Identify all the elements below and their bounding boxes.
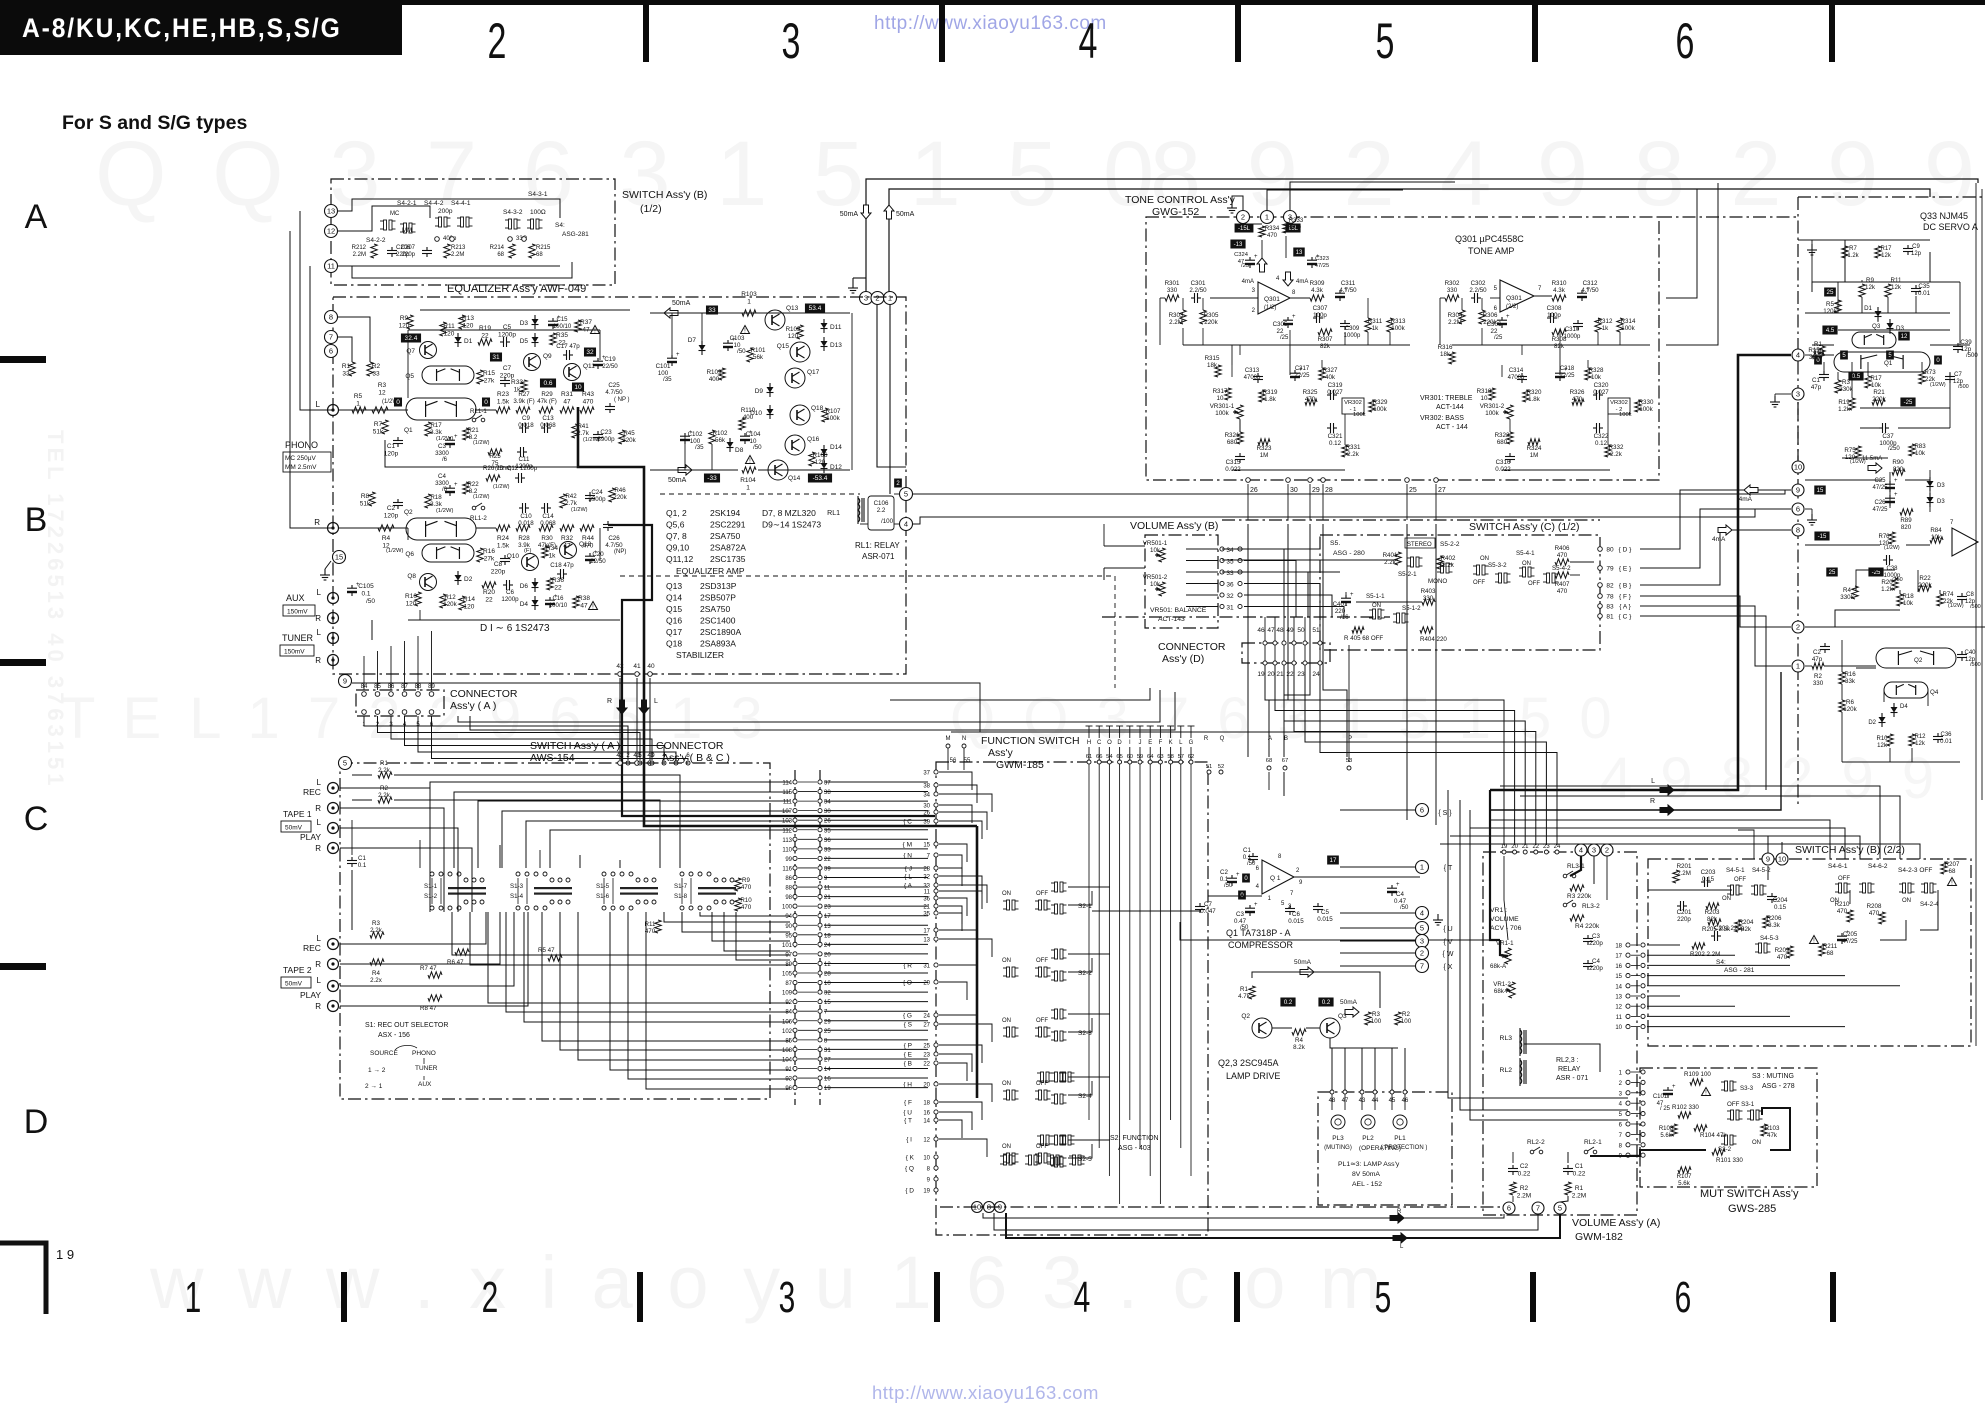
svg-text:S2-2: S2-2 <box>1078 970 1092 977</box>
svg-text:6: 6 <box>329 347 333 356</box>
svg-text:2.2M: 2.2M <box>1448 319 1462 326</box>
svg-text:C9: C9 <box>522 415 530 422</box>
svg-text:39: 39 <box>824 866 831 872</box>
svg-text:VR301-2: VR301-2 <box>1480 403 1505 410</box>
svg-text:0.15: 0.15 <box>1702 876 1715 883</box>
svg-text:VR301-1: VR301-1 <box>1210 403 1235 410</box>
svg-text:{ F }: { F } <box>1619 594 1632 601</box>
svg-text:MUT SWITCH Ass'y: MUT SWITCH Ass'y <box>1700 1188 1799 1200</box>
svg-text:{ U: { U <box>903 1110 912 1117</box>
terminal 15 <box>333 551 346 564</box>
terminal 4 volume A <box>1575 844 1587 856</box>
svg-text:33k: 33k <box>1845 678 1856 685</box>
svg-text:ASG - 278: ASG - 278 <box>1762 1083 1795 1090</box>
capacitor C36 0.01 pa <box>1937 733 1939 737</box>
svg-text:R7 47: R7 47 <box>420 965 437 972</box>
svg-text:3900p: 3900p <box>597 436 615 443</box>
svg-text:4.5: 4.5 <box>1826 328 1835 334</box>
svg-text:2: 2 <box>1420 949 1424 958</box>
resistor R24 1.5k <box>496 525 510 531</box>
svg-text:D: D <box>1117 740 1122 746</box>
svg-text:470: 470 <box>1557 552 1568 559</box>
svg-text:Q13: Q13 <box>666 581 682 591</box>
svg-text:R210: R210 <box>1835 901 1850 908</box>
svg-text:R14: R14 <box>463 596 475 603</box>
svg-text:470: 470 <box>1869 910 1880 917</box>
capacitor C20 22/50 <box>589 553 591 557</box>
svg-text:Q33 NJM45: Q33 NJM45 <box>1920 211 1968 221</box>
svg-text:1: 1 <box>185 1272 202 1321</box>
svg-text:R301: R301 <box>1165 280 1180 287</box>
svg-text:R15: R15 <box>483 370 495 377</box>
svg-text:32: 32 <box>1226 593 1234 600</box>
svg-text:{ E }: { E } <box>1619 566 1632 573</box>
svg-text:12: 12 <box>327 227 335 236</box>
svg-text:4: 4 <box>904 520 908 529</box>
wire function ladder rows to S2 columns <box>939 772 972 790</box>
svg-text:Q8: Q8 <box>407 573 416 580</box>
svg-text:R90: R90 <box>1892 459 1904 466</box>
wire switch A upper rails to connector <box>430 782 790 868</box>
capacitor C314 4700p <box>1521 373 1523 377</box>
svg-text:15: 15 <box>923 843 930 849</box>
svg-text:VR501: BALANCE: VR501: BALANCE <box>1150 607 1207 614</box>
svg-text:D1: D1 <box>464 338 473 345</box>
svg-text:(1/2W): (1/2W) <box>1884 545 1900 551</box>
svg-text:67: 67 <box>1282 758 1288 764</box>
wire right edge verticals <box>1975 183 1977 1046</box>
svg-text:1: 1 <box>356 401 360 408</box>
svg-text:{ E: { E <box>904 1052 913 1059</box>
svg-text:D6: D6 <box>520 583 529 590</box>
svg-text:{ J: { J <box>905 866 912 873</box>
svg-text:S4-4-1: S4-4-1 <box>451 200 471 207</box>
svg-text:RL2,3 :: RL2,3 : <box>1556 1057 1579 1064</box>
svg-text:3.9k (F): 3.9k (F) <box>513 398 534 405</box>
terminal 4 relay <box>900 518 913 531</box>
svg-text:R: R <box>315 804 321 813</box>
svg-text:Q1: Q1 <box>1884 360 1893 367</box>
terminal 7 <box>325 331 338 344</box>
svg-text:59: 59 <box>1137 754 1143 760</box>
capacitor C103 10/50 <box>727 340 729 344</box>
svg-text:120k: 120k <box>1843 706 1857 713</box>
svg-text:RL2: RL2 <box>1500 1067 1513 1074</box>
capacitor C9 0.018 <box>519 427 523 429</box>
svg-text:98: 98 <box>785 895 792 901</box>
pot VR302-2 100k <box>1608 398 1630 414</box>
svg-text:18: 18 <box>923 1101 930 1107</box>
capacitor C35 0.01 pa <box>1915 285 1917 289</box>
svg-text:R: R <box>314 518 320 527</box>
svg-text:/500: /500 <box>1958 384 1969 390</box>
resistor R5 47 <box>548 955 562 961</box>
svg-text:C311: C311 <box>1341 280 1356 287</box>
svg-text:47k: 47k <box>1767 1132 1778 1139</box>
svg-text:Q5,6: Q5,6 <box>666 520 685 530</box>
thick signal path R channel <box>608 525 935 816</box>
svg-text:0.6: 0.6 <box>543 380 552 387</box>
svg-text:R9: R9 <box>400 315 409 322</box>
top grid number 2 <box>488 14 507 70</box>
svg-text:19: 19 <box>923 1189 930 1195</box>
svg-text:15: 15 <box>335 553 343 562</box>
wire tone top cluster <box>1261 240 1263 258</box>
svg-text:R9: R9 <box>1866 277 1874 284</box>
svg-text:/500: /500 <box>1970 662 1981 668</box>
resistor R44 470 <box>580 525 594 531</box>
svg-text:R3: R3 <box>378 382 387 389</box>
svg-text:17: 17 <box>1615 954 1622 960</box>
svg-text:100k: 100k <box>1353 412 1366 418</box>
svg-text:C312: C312 <box>1583 280 1598 287</box>
svg-text:R12: R12 <box>444 594 456 601</box>
svg-text:B: B <box>1284 736 1288 742</box>
svg-text:VOLUME Ass'y (A): VOLUME Ass'y (A) <box>1572 1217 1660 1229</box>
svg-text:66: 66 <box>1096 754 1102 760</box>
svg-text:1200p: 1200p <box>498 332 516 339</box>
svg-text:47p: 47p <box>1812 656 1823 663</box>
resistor R16 33k pa <box>1839 672 1845 684</box>
top border strip <box>402 0 1985 5</box>
bottom grid number 1 <box>185 1272 202 1321</box>
terminal 2 func right <box>1416 947 1429 960</box>
svg-text:12k: 12k <box>1877 743 1888 749</box>
capacitor C7 12p/500 pa <box>1949 373 1951 377</box>
capacitor C315 0.022 <box>1239 453 1241 457</box>
capacitor C324 47/25 <box>1249 257 1251 261</box>
svg-text:14: 14 <box>1615 984 1622 990</box>
thick signal path L channel <box>578 407 977 826</box>
svg-text:C323: C323 <box>1315 256 1329 262</box>
svg-text:53.4: 53.4 <box>809 305 822 312</box>
capacitor C8 12p/500 pa <box>1961 593 1963 597</box>
wire tone terminals up <box>1267 190 1403 210</box>
terminal 7 volume A <box>1532 1202 1544 1214</box>
svg-text:4: 4 <box>1079 14 1098 70</box>
11.5mA arrow pa <box>1868 463 1882 473</box>
svg-text:/6: /6 <box>442 487 448 493</box>
svg-text:120: 120 <box>406 601 417 608</box>
svg-text:S4-2-4: S4-2-4 <box>1920 901 1939 908</box>
wire terminal 9 bus right <box>352 683 980 732</box>
svg-text:5: 5 <box>1420 924 1424 933</box>
capacitor C3 0.47/50 <box>1249 905 1251 909</box>
svg-text:C17 47p: C17 47p <box>556 343 580 350</box>
svg-text:34: 34 <box>1226 547 1234 554</box>
svg-text:ON: ON <box>1372 603 1381 609</box>
svg-text:SWITCH Ass'y (C) (1/2): SWITCH Ass'y (C) (1/2) <box>1469 521 1580 533</box>
svg-text:C25: C25 <box>1874 478 1886 484</box>
block FUNCTION SWITCH outline <box>936 762 1208 1235</box>
terminal 3 equalizer out <box>860 292 873 305</box>
svg-text:R27: R27 <box>518 391 530 398</box>
svg-text:R107: R107 <box>1677 1173 1692 1180</box>
svg-text:(MUTING): (MUTING) <box>1324 1145 1352 1151</box>
terminal 8 <box>325 311 338 324</box>
pot VR302-1 100k <box>1342 398 1364 414</box>
svg-text:STABILIZER: STABILIZER <box>676 650 724 660</box>
svg-text:24: 24 <box>923 1014 930 1020</box>
svg-text:S1-1: S1-1 <box>424 883 438 890</box>
svg-text:RL1: RELAY: RL1: RELAY <box>855 541 900 550</box>
svg-text:VR1-2: VR1-2 <box>1493 981 1511 988</box>
svg-text:2SC1735: 2SC1735 <box>710 554 746 564</box>
svg-text:0.015: 0.015 <box>1317 916 1333 923</box>
svg-text:MONO: MONO <box>1428 578 1447 585</box>
svg-text:R310: R310 <box>1552 280 1567 287</box>
R arrow on path <box>1660 805 1674 815</box>
svg-text:470: 470 <box>1557 588 1568 595</box>
svg-text:TUNER: TUNER <box>415 1065 438 1072</box>
svg-text:6: 6 <box>1796 505 1800 514</box>
wire tone out feedback to pa <box>1666 189 1697 298</box>
svg-text:Q17: Q17 <box>666 627 682 637</box>
wire tone pins down to function switch <box>1247 524 1249 757</box>
svg-text:2.2M: 2.2M <box>1169 319 1183 326</box>
svg-text:Q14: Q14 <box>788 475 801 482</box>
resistor R311 1k <box>1365 318 1371 332</box>
svg-text:26: 26 <box>1250 487 1258 494</box>
svg-text:R315: R315 <box>1205 355 1220 362</box>
svg-text:120p: 120p <box>384 513 399 520</box>
svg-text:105: 105 <box>782 972 793 978</box>
resistor R34 1k <box>542 546 548 558</box>
diode D4 pa <box>1893 703 1895 717</box>
svg-text:1k: 1k <box>1602 325 1609 332</box>
svg-text:VR501-1: VR501-1 <box>1143 540 1168 547</box>
voltage box -33 <box>704 474 720 483</box>
svg-text:2.2k: 2.2k <box>378 767 391 774</box>
capacitor C19 22/50 <box>597 358 599 362</box>
svg-text:20: 20 <box>1267 671 1275 678</box>
resistor R206 3.3k <box>1763 916 1769 928</box>
terminal 5 switch A <box>339 757 352 770</box>
svg-text:E: E <box>1148 740 1152 746</box>
svg-text:5: 5 <box>904 490 908 499</box>
svg-text:S3 : MUTING: S3 : MUTING <box>1752 1073 1794 1080</box>
svg-text:R303: R303 <box>1169 312 1184 319</box>
transistor Q12 <box>560 542 577 559</box>
svg-text:R2: R2 <box>372 363 381 370</box>
switch S3-2 <box>1725 1135 1728 1145</box>
svg-text:2.2/50: 2.2/50 <box>1469 287 1487 294</box>
capacitor C301 2.2/50 <box>1191 297 1195 299</box>
bottom grid number 4 <box>1074 1272 1091 1321</box>
wire connector A staircase to right <box>364 716 628 760</box>
relay coil RL2 <box>1519 1058 1521 1086</box>
svg-text:+: + <box>454 434 458 440</box>
svg-text:TAPE 2: TAPE 2 <box>283 965 312 975</box>
svg-text:57: 57 <box>1178 754 1184 760</box>
svg-text:C2: C2 <box>387 505 396 512</box>
svg-text:+: + <box>1396 882 1400 888</box>
thick path through volume A <box>1570 856 1581 876</box>
svg-text:-25: -25 <box>1904 400 1913 406</box>
resistor R327 40k <box>1319 368 1325 380</box>
TAPE2 PLAY jack R <box>328 1001 339 1012</box>
terminal 13 <box>325 205 338 218</box>
wire function switch verticals inside <box>1088 764 1090 1120</box>
svg-text:68: 68 <box>536 252 543 258</box>
svg-text:-13: -13 <box>1234 242 1243 248</box>
svg-text:4mA: 4mA <box>1739 496 1753 503</box>
svg-text:37: 37 <box>824 781 831 787</box>
svg-text:9: 9 <box>1796 486 1800 495</box>
svg-text:120k: 120k <box>1823 308 1837 315</box>
resistor R322 680 <box>1507 432 1513 444</box>
voltage box 13 <box>1293 248 1304 257</box>
50mA arrow lamp right <box>1345 1007 1359 1017</box>
svg-text:33: 33 <box>824 847 831 853</box>
svg-text:32: 32 <box>824 991 831 997</box>
block VOLUME A outline <box>1483 852 1637 1215</box>
svg-text:24: 24 <box>1554 844 1561 850</box>
svg-text:0.2: 0.2 <box>1284 1000 1293 1006</box>
svg-text:51: 51 <box>1312 627 1320 634</box>
svg-text:26: 26 <box>923 811 930 817</box>
svg-text:R37: R37 <box>580 319 592 326</box>
resistor R1 33 <box>349 362 355 376</box>
dual transistor Q6 <box>422 544 474 562</box>
capacitor C11 1200p <box>517 451 521 453</box>
50mA arrow up at equalizer output <box>884 205 894 219</box>
svg-text:120p: 120p <box>384 451 399 458</box>
wire terminal1 down to relay area <box>889 305 891 494</box>
resistor R90 820 pa <box>1892 469 1905 475</box>
svg-text:R333: R333 <box>1289 218 1304 224</box>
resistor R208 470 <box>1879 912 1885 924</box>
diode D2 <box>457 571 459 585</box>
resistor R18 3.3k <box>425 494 431 508</box>
svg-text:AUX: AUX <box>418 1081 432 1088</box>
resistor R318 10 <box>1489 388 1495 400</box>
switch S5-1-2 <box>1397 613 1400 623</box>
svg-text:R3: R3 <box>372 920 380 927</box>
svg-text:R324: R324 <box>1527 445 1542 452</box>
svg-text:AWS-154: AWS-154 <box>530 752 575 764</box>
svg-text:(1/2W): (1/2W) <box>436 436 453 442</box>
svg-text:2SC1400: 2SC1400 <box>700 616 736 626</box>
voltage box 0 pa left <box>1814 356 1822 365</box>
svg-text:114: 114 <box>782 781 792 787</box>
resistor R1 4.7k lamp <box>1249 986 1255 999</box>
svg-text:R84: R84 <box>1930 527 1942 534</box>
svg-text:16: 16 <box>923 1111 930 1117</box>
svg-text:12: 12 <box>378 390 386 397</box>
svg-text:0: 0 <box>484 399 488 406</box>
wire stabilizer top rail <box>650 312 850 314</box>
svg-text:22/50: 22/50 <box>590 558 606 565</box>
svg-text:2: 2 <box>875 294 879 303</box>
svg-text:100k: 100k <box>1373 406 1387 413</box>
terminal 1 func right <box>1416 861 1429 874</box>
capacitor C206 220p <box>391 247 393 251</box>
svg-text:27: 27 <box>824 1057 831 1063</box>
voltage box 5 left <box>1840 351 1848 360</box>
resistor R5 120k pa <box>1835 300 1841 313</box>
svg-text:0.12: 0.12 <box>1329 440 1342 447</box>
switch group S1-7 S1-8 <box>672 870 734 912</box>
capacitor C24 3900p <box>589 492 591 496</box>
svg-text:Q2: Q2 <box>1914 657 1923 664</box>
bottom grid number 2 <box>482 1272 499 1321</box>
svg-text:86: 86 <box>785 876 792 882</box>
svg-text:(1/2W): (1/2W) <box>571 507 588 513</box>
svg-text:52: 52 <box>1218 764 1224 770</box>
svg-text:TEL 17226513 40 3763151: TEL 17226513 40 3763151 <box>43 430 68 790</box>
svg-text:VR302: BASS: VR302: BASS <box>1420 415 1464 422</box>
resistor R10 12k pa <box>1887 734 1893 746</box>
svg-text:C18 47p: C18 47p <box>550 562 574 569</box>
bottom grid tick after 5 <box>1530 1272 1536 1322</box>
svg-text:OFF: OFF <box>1036 891 1048 897</box>
svg-text:{ S: { S <box>904 1022 913 1029</box>
svg-text:ON: ON <box>1002 1018 1011 1024</box>
svg-text:R18: R18 <box>430 494 442 501</box>
R channel arrow at connector A <box>617 700 627 714</box>
svg-text:50mA: 50mA <box>840 211 859 218</box>
resistor R42 2.7k <box>560 494 566 508</box>
svg-text:21: 21 <box>923 905 930 911</box>
resistor R106 120 <box>809 452 815 466</box>
svg-text:50mA: 50mA <box>1294 959 1312 966</box>
svg-text:C401: C401 <box>1333 601 1348 608</box>
svg-text:50mA: 50mA <box>1340 999 1358 1006</box>
svg-text:1M: 1M <box>1530 452 1539 459</box>
svg-text:107: 107 <box>782 809 793 815</box>
svg-text:36: 36 <box>923 897 930 903</box>
ground pa top <box>1811 244 1813 250</box>
svg-text:R: R <box>315 960 321 969</box>
svg-text:(1/2W): (1/2W) <box>386 548 403 554</box>
svg-text:2SB507P: 2SB507P <box>700 593 736 603</box>
svg-text:110: 110 <box>782 847 792 853</box>
svg-text:10k: 10k <box>1931 534 1942 541</box>
svg-text:OFF: OFF <box>1036 958 1048 964</box>
terminal 2 pa <box>1792 621 1804 633</box>
capacitor C26 47/25 pa <box>1889 495 1891 499</box>
svg-text:22: 22 <box>485 597 493 604</box>
svg-text:D3: D3 <box>520 320 529 327</box>
svg-text:SWITCH Ass'y (B) (2/2): SWITCH Ass'y (B) (2/2) <box>1795 844 1905 856</box>
svg-text:R25: R25 <box>489 453 501 460</box>
svg-text:PHONO: PHONO <box>285 440 318 450</box>
svg-text:+: + <box>1894 492 1898 498</box>
svg-text:S1-5: S1-5 <box>596 883 610 890</box>
svg-text:62: 62 <box>1188 754 1194 760</box>
resistor R104 1 <box>742 467 756 473</box>
diode D6 <box>534 578 536 592</box>
svg-text:R314: R314 <box>1621 318 1636 325</box>
resistor R403 330 <box>1422 599 1435 605</box>
svg-text:7: 7 <box>329 333 333 342</box>
svg-text:R102 330: R102 330 <box>1672 1104 1699 1111</box>
svg-text:DC SERVO A: DC SERVO A <box>1923 222 1978 232</box>
svg-text:Q3: Q3 <box>1338 1013 1347 1020</box>
svg-text:R323: R323 <box>1257 445 1272 452</box>
svg-text:23: 23 <box>923 1053 930 1059</box>
capacitor C15 100/10 <box>552 318 554 322</box>
relay contact RL1-2 <box>472 506 476 510</box>
svg-text:10: 10 <box>1481 395 1488 402</box>
svg-text:R329: R329 <box>1373 399 1388 406</box>
svg-text:L: L <box>1651 778 1655 785</box>
svg-text:12: 12 <box>923 1138 930 1144</box>
svg-text:C309: C309 <box>1345 326 1360 332</box>
resistor R8 51k <box>369 492 375 506</box>
svg-text:25: 25 <box>1829 570 1836 576</box>
